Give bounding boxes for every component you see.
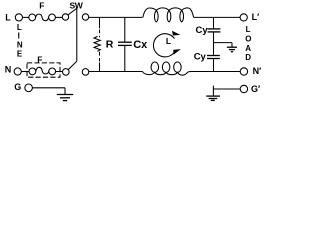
terminal N circle — [14, 68, 21, 75]
svg-text:Cx: Cx — [133, 39, 148, 51]
svg-text:Cy: Cy — [194, 51, 207, 62]
fuse F1 right circle — [49, 14, 56, 21]
svg-text:L: L — [246, 25, 251, 34]
choke core circular arrow arc — [153, 34, 174, 57]
wire: choke to terminal L-prime — [194, 16, 240, 18]
capacitor Cy2 plates — [207, 55, 220, 57]
inductor L choke bottom winding — [142, 62, 190, 75]
wire: N terminal to fuse box — [21, 71, 29, 73]
capacitor Cx top lead — [124, 17, 126, 42]
fuse F2 left circle — [29, 68, 36, 75]
inductor L choke top winding — [143, 8, 194, 22]
wire: switch to choke, bottom — [89, 71, 143, 73]
switch SW pole1 blade — [68, 8, 77, 15]
svg-text:N: N — [5, 64, 12, 74]
optional fuse dashed box — [27, 63, 60, 77]
wire: Cy1 to Cy2 mid node — [213, 32, 215, 56]
label LOAD vertical — [245, 25, 251, 62]
terminal L-prime circle — [240, 14, 247, 21]
choke arrow head bottom — [173, 49, 181, 55]
wire: fuse box to switch pole 2 — [56, 71, 63, 73]
svg-text:Cy: Cy — [196, 25, 209, 36]
terminal G-prime circle — [240, 85, 247, 92]
svg-text:D: D — [245, 53, 251, 62]
choke arrow head top — [172, 31, 180, 36]
capacitor Cx plates — [118, 41, 132, 43]
switch SW pole2 pivot circle — [63, 69, 70, 76]
terminal L circle — [15, 14, 22, 21]
switch SW linkage bar — [76, 8, 78, 61]
svg-text:E: E — [17, 49, 23, 58]
fuse F2 right circle — [49, 68, 56, 75]
capacitor Cy1 top lead — [213, 17, 215, 29]
svg-text:N′: N′ — [253, 66, 262, 76]
resistor R top lead (solid then dashed) — [99, 17, 101, 28]
svg-text:N: N — [17, 40, 23, 49]
wire: choke to terminal N-prime — [190, 71, 241, 73]
terminal G circle — [25, 84, 33, 92]
svg-text:R: R — [106, 39, 114, 51]
svg-text:L′: L′ — [252, 12, 260, 22]
svg-text:A: A — [245, 44, 251, 53]
resistor R bottom lead (dashed then solid) — [99, 52, 101, 62]
wire: fuse to switch pole 1 — [55, 16, 62, 18]
svg-text:G: G — [14, 82, 21, 92]
svg-text:F: F — [39, 1, 44, 11]
capacitor Cx bottom lead — [124, 45, 126, 71]
svg-text:I: I — [18, 32, 20, 41]
capacitor Cy2 bottom lead — [213, 59, 215, 72]
svg-text:L: L — [5, 12, 11, 22]
svg-text:G′: G′ — [251, 84, 260, 94]
capacitor Cy1 plates — [208, 28, 221, 30]
fuse F1 left circle — [29, 14, 36, 21]
svg-text:L: L — [166, 36, 171, 46]
resistor R zigzag — [94, 36, 100, 51]
wire: top line, terminal L to fuse — [23, 16, 29, 18]
switch SW pole2 contact circle — [82, 69, 89, 76]
switch SW pole1 pivot circle — [62, 14, 68, 20]
earth ground (left) — [57, 88, 73, 101]
svg-text:F: F — [37, 54, 42, 64]
wire: switch to choke, top — [89, 16, 143, 18]
wire: G-prime to earth — [213, 88, 240, 90]
earth ground (right) — [206, 86, 220, 101]
fuse F2 wave element — [36, 67, 49, 74]
earth ground (mid right) — [227, 43, 237, 52]
svg-text:O: O — [245, 35, 251, 44]
label LINE vertical — [17, 23, 23, 59]
fuse F1 wave element — [36, 14, 49, 21]
wire: G terminal to earth — [32, 87, 65, 89]
terminal N-prime circle — [240, 68, 247, 75]
switch SW pole2 blade — [68, 61, 77, 69]
wire: mid node to earth — [214, 42, 233, 44]
switch SW pole1 contact circle — [82, 14, 88, 20]
svg-text:SW: SW — [70, 0, 84, 10]
